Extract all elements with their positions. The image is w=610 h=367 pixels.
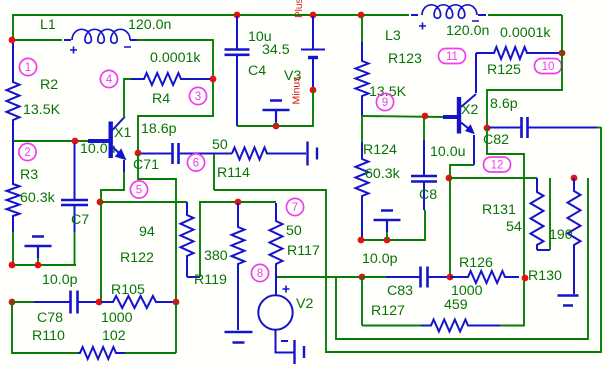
value 380 of R119 <box>204 248 228 264</box>
junction R124 bottom <box>358 237 365 244</box>
ground R119 bottom <box>225 332 253 343</box>
label C82 <box>483 132 509 148</box>
junction C83 left <box>359 274 366 281</box>
label R117 <box>287 243 320 259</box>
junction C4 top <box>234 12 241 19</box>
resistor R130 <box>568 178 581 294</box>
svg-text:2: 2 <box>24 147 30 159</box>
resistor R124 <box>356 142 369 240</box>
label R122 <box>120 250 154 266</box>
svg-text:0.0001k: 0.0001k <box>500 25 551 41</box>
wire V2 plus tap to C83 <box>277 276 362 278</box>
wire V3 minus rail <box>237 90 313 126</box>
value 8.6p of C82 <box>490 96 518 112</box>
wire top rail right of L3 <box>488 14 562 16</box>
label C71 <box>133 157 159 173</box>
label X2 <box>461 102 478 118</box>
ground left <box>25 237 52 266</box>
value 50 of R117 <box>286 223 302 239</box>
node 5 <box>130 181 147 198</box>
junction ground minus <box>273 123 280 130</box>
resistor R126 <box>450 271 519 283</box>
svg-text:R119: R119 <box>194 272 227 288</box>
resistor R110 <box>78 347 125 359</box>
label V3 <box>284 68 301 84</box>
inductor L3 <box>422 5 477 18</box>
capacitor C83 <box>386 267 450 288</box>
svg-text:18.6p: 18.6p <box>141 121 177 137</box>
wire X1 collector to R4 <box>124 79 131 118</box>
wire ground rail left <box>12 264 76 266</box>
ground minus net <box>263 101 290 127</box>
svg-text:R122: R122 <box>120 250 154 266</box>
label R114 <box>217 165 250 181</box>
wire R124 bottom rail <box>361 210 425 240</box>
wire to R124 <box>361 116 363 142</box>
junction node 1 <box>9 37 16 44</box>
label R3 <box>20 167 38 183</box>
junction C78 left <box>9 299 16 306</box>
junction R130 top <box>571 175 578 182</box>
node 9 <box>376 93 393 110</box>
value 18.6p of C71 <box>141 121 177 137</box>
battery V3 <box>301 16 325 90</box>
inductor L3 leads <box>411 14 486 16</box>
svg-text:10: 10 <box>542 61 555 73</box>
junction C78 right <box>96 299 103 306</box>
svg-text:C4: C4 <box>248 63 266 79</box>
wire emitter to C83 junction <box>450 165 474 277</box>
junction emitter rail <box>97 199 104 206</box>
label X1 <box>114 125 131 141</box>
value 54 of R131 <box>506 219 522 235</box>
node 11 <box>439 49 466 64</box>
label C83 <box>387 283 413 299</box>
svg-text:50: 50 <box>212 137 228 153</box>
svg-text:50: 50 <box>286 223 302 239</box>
wire rail 2 <box>200 202 276 277</box>
node 4 <box>100 70 117 87</box>
junction V3 top <box>310 12 317 19</box>
wire C82 right stub <box>597 127 601 129</box>
wire X2 collector to R125 <box>475 53 477 93</box>
value 0.0001k of R125 <box>500 25 551 41</box>
svg-text:1000: 1000 <box>101 310 133 326</box>
wire from node 1 to L1 <box>13 39 62 41</box>
value 94 of R122 <box>139 224 155 240</box>
node 2 <box>19 143 36 160</box>
label R130 <box>528 268 562 284</box>
wire node 9 to X2 base <box>362 116 443 117</box>
svg-text:R2: R2 <box>40 77 58 93</box>
junction emitter net <box>446 175 453 182</box>
svg-text:C71: C71 <box>133 157 159 173</box>
junction left rail <box>9 262 16 269</box>
wire to R130 rail <box>336 178 588 339</box>
value 50 of R114 <box>212 137 228 153</box>
junction C83 right <box>447 274 454 281</box>
label R127 <box>371 303 405 319</box>
svg-text:10.0p: 10.0p <box>362 251 398 267</box>
label C7 <box>71 212 89 228</box>
label C8 <box>419 187 437 203</box>
svg-text:R4: R4 <box>152 91 170 107</box>
svg-text:C8: C8 <box>419 187 437 203</box>
svg-text:R131: R131 <box>482 202 516 218</box>
resistor R2 <box>7 43 20 141</box>
wire long loop to C82 right <box>214 127 601 352</box>
svg-text:R105: R105 <box>111 282 145 298</box>
svg-text:X2: X2 <box>461 102 478 118</box>
label R2 <box>40 77 58 93</box>
svg-text:8: 8 <box>257 268 263 280</box>
junction R123 top <box>358 12 365 19</box>
value 10.0p of C78 <box>42 272 78 288</box>
value 10.0p of C83 <box>362 251 398 267</box>
ground R130 bottom <box>558 296 579 306</box>
wire top rail left of L3 <box>13 15 409 40</box>
resistor R123 <box>356 42 369 116</box>
wire R110 to corner <box>125 352 176 354</box>
svg-text:R3: R3 <box>20 167 38 183</box>
inductor L1 polarity marks <box>70 47 131 54</box>
capacitor C7 <box>61 143 88 232</box>
resistor R117 <box>270 203 283 296</box>
label R123 <box>388 51 422 67</box>
resistor R114 <box>232 148 306 160</box>
junction C8 top <box>422 113 429 120</box>
svg-text:L1: L1 <box>40 17 56 33</box>
wire R105 right down <box>175 302 177 353</box>
svg-text:5: 5 <box>136 185 142 197</box>
wire to R123 <box>361 16 363 42</box>
svg-text:R127: R127 <box>371 303 405 319</box>
svg-text:R124: R124 <box>363 142 397 158</box>
value 1000 of R126 <box>451 283 483 299</box>
svg-text:X1: X1 <box>114 125 131 141</box>
value 10u of C4 <box>248 29 272 45</box>
junction R119 top <box>235 199 242 206</box>
wire node 12 down the right column <box>487 128 524 326</box>
svg-text:R130: R130 <box>528 268 562 284</box>
label C78 <box>37 310 63 326</box>
svg-text:R125: R125 <box>487 62 521 78</box>
svg-text:R114: R114 <box>217 165 250 181</box>
wire R131 bottom up <box>549 178 551 250</box>
junction R105 right <box>173 299 180 306</box>
svg-text:R123: R123 <box>388 51 422 67</box>
svg-text:C83: C83 <box>387 283 413 299</box>
node 12 <box>484 157 511 172</box>
node 8 <box>251 264 268 281</box>
wire to R127 <box>362 325 421 327</box>
wire emitter to R131 top <box>450 177 537 179</box>
label C4 <box>248 63 266 79</box>
svg-text:Minus: Minus <box>291 76 303 104</box>
svg-text:190: 190 <box>549 227 573 243</box>
value 120.0n of L3 <box>446 23 489 39</box>
label R119 <box>194 272 227 288</box>
transistor X2 <box>443 94 476 134</box>
resistor R105 <box>101 296 176 308</box>
svg-text:7: 7 <box>292 202 298 214</box>
svg-text:11: 11 <box>446 51 458 63</box>
wire C83 left down <box>361 277 363 326</box>
svg-text:380: 380 <box>204 248 228 264</box>
label R105 <box>111 282 145 298</box>
svg-text:10.0p: 10.0p <box>42 272 78 288</box>
svg-text:C78: C78 <box>37 310 63 326</box>
wire V2 minus lead <box>276 330 295 353</box>
label R4 <box>152 91 170 107</box>
junction C82 left <box>484 125 491 132</box>
value 459 of R127 <box>444 297 468 313</box>
value 13.5K of R2 <box>23 102 61 118</box>
svg-text:10.0u: 10.0u <box>430 144 466 160</box>
label L1 <box>40 17 56 33</box>
capacitor C71 <box>141 143 232 164</box>
node 7 <box>286 198 303 215</box>
wire to C8 <box>423 117 425 140</box>
capacitor C82 <box>489 117 597 138</box>
junction ground left <box>35 262 42 269</box>
svg-text:9: 9 <box>382 97 388 109</box>
value 102 of R110 <box>102 328 126 344</box>
wire R114 tap down <box>213 154 215 190</box>
transistor X1 <box>88 117 127 161</box>
net label Minus <box>291 76 303 104</box>
svg-text:120.0n: 120.0n <box>446 23 489 39</box>
svg-text:94: 94 <box>139 224 155 240</box>
resistor R131 <box>531 178 544 250</box>
svg-text:12: 12 <box>491 160 504 172</box>
label L3 <box>385 28 401 44</box>
resistor R122 <box>181 202 194 277</box>
label R131 <box>482 202 516 218</box>
svg-text:459: 459 <box>444 297 468 313</box>
svg-text:13.5K: 13.5K <box>23 102 61 118</box>
node 6 <box>187 154 204 171</box>
inductor L1 <box>72 29 130 43</box>
node 1 <box>19 58 36 75</box>
label R126 <box>459 255 493 271</box>
svg-text:6: 6 <box>193 158 199 170</box>
svg-text:60.3k: 60.3k <box>20 190 56 206</box>
value 1000 of R105 <box>101 310 133 326</box>
junction R4 right <box>210 76 217 83</box>
value 60.3k of R3 <box>20 190 56 206</box>
ground R124/C8 <box>374 211 401 241</box>
wire X2 emitter <box>473 135 475 165</box>
svg-text:V2: V2 <box>296 296 313 312</box>
capacitor C4 <box>225 16 250 126</box>
svg-text:3: 3 <box>195 91 201 103</box>
svg-text:54: 54 <box>506 219 522 235</box>
svg-text:Plus: Plus <box>294 0 305 18</box>
svg-text:34.5: 34.5 <box>262 42 290 58</box>
svg-text:102: 102 <box>102 328 126 344</box>
resistor R119 <box>232 203 245 330</box>
junction R125 right <box>559 50 566 57</box>
resistor R127 <box>421 320 500 332</box>
label R110 <box>32 328 65 344</box>
wire C7 bottom <box>74 232 76 265</box>
resistor R3 <box>7 141 20 232</box>
value 120.0n of L1 <box>128 17 171 33</box>
label R124 <box>363 142 397 158</box>
node 3 <box>189 87 206 104</box>
svg-text:0.0001k: 0.0001k <box>150 50 201 66</box>
junction ground right <box>384 237 391 244</box>
wire node 10 down to C82 <box>487 15 562 128</box>
junction base/C7 <box>72 138 79 145</box>
net label Plus <box>294 0 305 18</box>
svg-text:1: 1 <box>25 62 31 74</box>
label R125 <box>487 62 521 78</box>
capacitor C78 <box>34 291 99 314</box>
resistor R125 <box>476 47 562 59</box>
value 60.3k of R124 <box>365 166 401 182</box>
wire node 2 to X1 base <box>13 140 88 142</box>
svg-text:R110: R110 <box>32 328 65 344</box>
ground V2 minus <box>295 340 305 364</box>
source V2 <box>258 286 292 330</box>
wire X1 emitter <box>123 160 125 172</box>
svg-text:120.0n: 120.0n <box>128 17 171 33</box>
svg-text:60.3k: 60.3k <box>365 166 401 182</box>
node 10 <box>535 59 562 74</box>
inductor L1 leads <box>64 39 137 41</box>
wire to C83 <box>362 276 386 278</box>
svg-text:8.6p: 8.6p <box>490 96 518 112</box>
wire rail to R122 top <box>100 201 187 203</box>
wire bottom left corner <box>12 302 80 353</box>
svg-text:C7: C7 <box>71 212 89 228</box>
junction V3 bottom <box>310 87 317 94</box>
ground R114 right <box>308 142 318 166</box>
wire R3 bottom <box>12 232 14 265</box>
value 190 of R130 <box>549 227 573 243</box>
wire to C78 <box>12 301 34 303</box>
svg-text:R117: R117 <box>287 243 320 259</box>
value 10.0u of C8 <box>430 144 466 160</box>
inductor L3 polarity marks <box>419 21 479 30</box>
label V2 <box>296 296 313 312</box>
svg-text:L3: L3 <box>385 28 401 44</box>
svg-text:R126: R126 <box>459 255 493 271</box>
wire L1 to R4 right and down to C71 <box>137 40 213 153</box>
value 10.0u of C7 <box>80 141 116 157</box>
svg-text:4: 4 <box>106 74 113 86</box>
wire R131 bottom hook <box>537 249 550 251</box>
value 0.0001k of R4 <box>150 50 201 66</box>
wire R122 bottom hook <box>187 276 200 278</box>
capacitor C8 <box>411 140 437 210</box>
wire node 5 branch down <box>138 153 176 302</box>
value 34.5 of V3 <box>262 42 290 58</box>
wire emitter down to C78 <box>101 172 124 302</box>
resistor R4 <box>131 73 213 85</box>
junction C71 left <box>135 150 142 157</box>
value 13.5K of R123 <box>369 84 407 100</box>
junction R126 right <box>522 275 529 282</box>
